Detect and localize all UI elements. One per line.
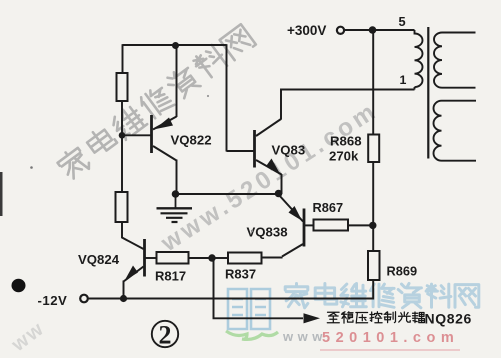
wire R837 to VQ838 collector	[262, 257, 283, 259]
transistor VQ838	[279, 195, 304, 222]
wire VQ824 emitter down	[123, 281, 125, 299]
left edge smudge	[0, 172, 3, 216]
wire top rail	[123, 44, 227, 46]
wire VQ838 base to R867	[305, 224, 314, 226]
transistor VQ83	[253, 130, 256, 168]
svg-text:270k: 270k	[329, 149, 359, 164]
svg-text:-12V: -12V	[38, 293, 68, 308]
node VQ83 emitter	[275, 190, 283, 198]
terminal +300V	[337, 27, 344, 34]
svg-text:R837: R837	[225, 267, 256, 282]
wire primary pin1	[414, 87, 416, 90]
svg-text:R817: R817	[155, 269, 186, 284]
wire R817 to node	[189, 257, 213, 259]
circled number 2	[152, 321, 178, 347]
terminal -12V	[80, 295, 88, 303]
svg-text:R868: R868	[330, 134, 362, 149]
watermark logo green swoosh	[226, 331, 278, 339]
transistor VQ824	[143, 239, 146, 277]
transformer secondary 1	[434, 33, 476, 88]
svg-text:+300V: +300V	[287, 23, 326, 38]
wire R869 to -12V rail	[89, 280, 374, 299]
transistor VQ822	[150, 115, 153, 153]
node top rail	[172, 42, 179, 49]
svg-text:R867: R867	[313, 200, 344, 215]
wire left rail upper	[122, 44, 124, 74]
svg-text:R869: R869	[387, 264, 418, 279]
wire R868 to node	[372, 162, 374, 252]
resistor R-left-bottom	[116, 192, 128, 222]
resistor R868	[368, 135, 379, 163]
wire VQ822 emitter up	[176, 45, 178, 117]
resistor R817	[157, 252, 189, 264]
watermark gray diagonal text 2 www.520101.com	[156, 97, 383, 258]
transformer primary winding	[415, 30, 423, 87]
wire left rail mid	[121, 101, 123, 193]
wire right rail to R868	[372, 30, 374, 135]
resistor R837	[228, 253, 262, 264]
transformer core	[427, 27, 429, 159]
svg-text:ww: ww	[7, 317, 49, 356]
svg-text:NQ826: NQ826	[425, 311, 472, 327]
wire collector bus	[176, 193, 279, 195]
label 至稳压控制光耦NQ826	[327, 312, 424, 323]
svg-text:520101.com: 520101.com	[322, 330, 459, 346]
svg-text:5: 5	[399, 14, 406, 29]
svg-text:VQ83: VQ83	[272, 143, 306, 158]
wire VQ824 base	[146, 257, 157, 259]
wire VQ822 base	[122, 134, 151, 136]
watermark bottom-left fragment	[7, 317, 49, 356]
node VQ822 collector	[172, 190, 180, 198]
wire VQ83 base horizontal	[227, 150, 254, 152]
ink blob left	[12, 279, 26, 292]
watermark blue text 家电维修资料网	[285, 284, 479, 308]
wire R867 to node	[348, 224, 373, 226]
speck marks	[30, 166, 33, 169]
wire left rail lower	[122, 222, 144, 249]
wire VQ83 emitter down	[281, 174, 283, 194]
svg-text:VQ824: VQ824	[78, 252, 120, 267]
transformer secondary 2	[434, 101, 477, 161]
node +300V rail	[369, 26, 377, 34]
watermark pink underline	[320, 349, 460, 351]
resistor R869	[368, 251, 380, 280]
svg-text:1: 1	[400, 73, 407, 87]
node VQ824 emitter	[120, 295, 127, 302]
resistor R-left-top	[117, 73, 128, 101]
wire VQ83 base vertical	[226, 44, 228, 151]
wire VQ83 collector up	[281, 90, 415, 120]
watermark logo open book	[228, 289, 270, 329]
svg-text:VQ822: VQ822	[171, 133, 212, 148]
node R817 R837	[208, 254, 215, 261]
node base VQ822	[119, 132, 126, 139]
wire to optocoupler	[214, 258, 304, 318]
watermark gray diagonal text 1	[55, 23, 256, 181]
arrow to NQ826	[304, 313, 321, 323]
wire +300V to transformer	[344, 29, 415, 31]
node R867 R869	[369, 222, 376, 229]
svg-text:2: 2	[159, 321, 172, 350]
wire VQ822 collector down	[176, 160, 178, 195]
resistor R867	[314, 220, 349, 231]
ground	[175, 194, 177, 208]
wire node to R837	[212, 257, 228, 259]
